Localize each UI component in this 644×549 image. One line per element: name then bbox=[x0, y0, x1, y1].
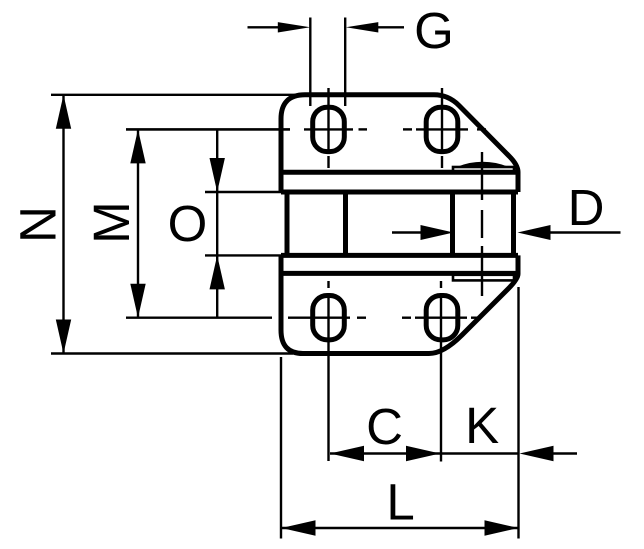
centerline slot top-left vertical bbox=[327, 88, 329, 168]
slot top-right bbox=[426, 107, 458, 151]
pin right edge bbox=[511, 192, 516, 255]
dimension N bottom arrow bbox=[56, 320, 71, 354]
svg-text:G: G bbox=[414, 2, 454, 59]
dimension N line bbox=[62, 95, 64, 354]
dimension L right extension bbox=[517, 287, 519, 539]
dimension C line bbox=[330, 452, 440, 454]
centerline top slots horizontal bbox=[126, 128, 486, 130]
centerline slot top-right vertical bbox=[441, 88, 443, 168]
dimension O line bbox=[216, 129, 218, 317]
dimension M extension top bbox=[126, 128, 290, 130]
top plate outline bbox=[281, 95, 518, 192]
dimension L line bbox=[282, 527, 519, 529]
svg-text:D: D bbox=[568, 179, 605, 236]
top plate face bottom line bbox=[281, 170, 518, 175]
slot bottom-left bbox=[313, 296, 345, 340]
hinge left block left edge bbox=[285, 192, 290, 255]
bottom band top line bbox=[281, 253, 518, 258]
bottom plate face top line bbox=[281, 271, 518, 276]
top washer dome bbox=[457, 162, 510, 167]
dimension K right arrow bbox=[520, 446, 554, 461]
dimension N extension top bbox=[51, 94, 313, 96]
dimension K line bbox=[441, 452, 518, 454]
dimension M bottom arrow bbox=[130, 284, 145, 318]
centerline slot bottom-left vertical + C extension bbox=[327, 281, 329, 461]
dimension O bottom arrow bbox=[210, 255, 225, 289]
centerline pin vertical bbox=[481, 152, 483, 296]
svg-text:K: K bbox=[465, 397, 499, 454]
dimension L right arrow bbox=[485, 520, 519, 536]
slot bottom-right bbox=[426, 296, 458, 340]
centerline slot bottom-right vertical + K extension bbox=[440, 281, 442, 462]
dimension L left arrow bbox=[282, 520, 316, 536]
top band bottom line bbox=[281, 190, 518, 195]
dimension N extension bottom bbox=[51, 352, 293, 354]
dimension O top arrow bbox=[210, 158, 225, 192]
dimension D right arrow bbox=[518, 225, 551, 240]
svg-text:O: O bbox=[168, 195, 208, 252]
hinge left block right edge bbox=[343, 192, 348, 255]
dimension G left arrow bbox=[248, 26, 281, 28]
pin left edge bbox=[450, 192, 455, 255]
dimension C right arrow bbox=[406, 446, 440, 461]
bottom washer bar bbox=[453, 275, 514, 281]
dimension M top arrow bbox=[130, 129, 145, 163]
svg-text:L: L bbox=[386, 474, 414, 531]
svg-text:M: M bbox=[83, 201, 140, 243]
centerline bottom slots horizontal bbox=[126, 317, 480, 319]
dimension N top arrow bbox=[56, 95, 71, 129]
dimension O extension bottom bbox=[205, 254, 287, 256]
svg-text:N: N bbox=[9, 206, 66, 243]
dimension G extension lines bbox=[309, 18, 311, 107]
bottom plate outline bbox=[281, 255, 518, 353]
dimension L left extension bbox=[280, 357, 282, 539]
top washer bar bbox=[453, 167, 514, 173]
dimension M line bbox=[137, 129, 139, 317]
dimension G right arrow bbox=[346, 22, 378, 32]
svg-text:C: C bbox=[366, 398, 403, 455]
dimension C left arrow bbox=[330, 446, 364, 461]
slot top-left bbox=[313, 107, 345, 151]
dimension D left arrow bbox=[392, 231, 425, 233]
dimension O extension top bbox=[205, 191, 281, 193]
